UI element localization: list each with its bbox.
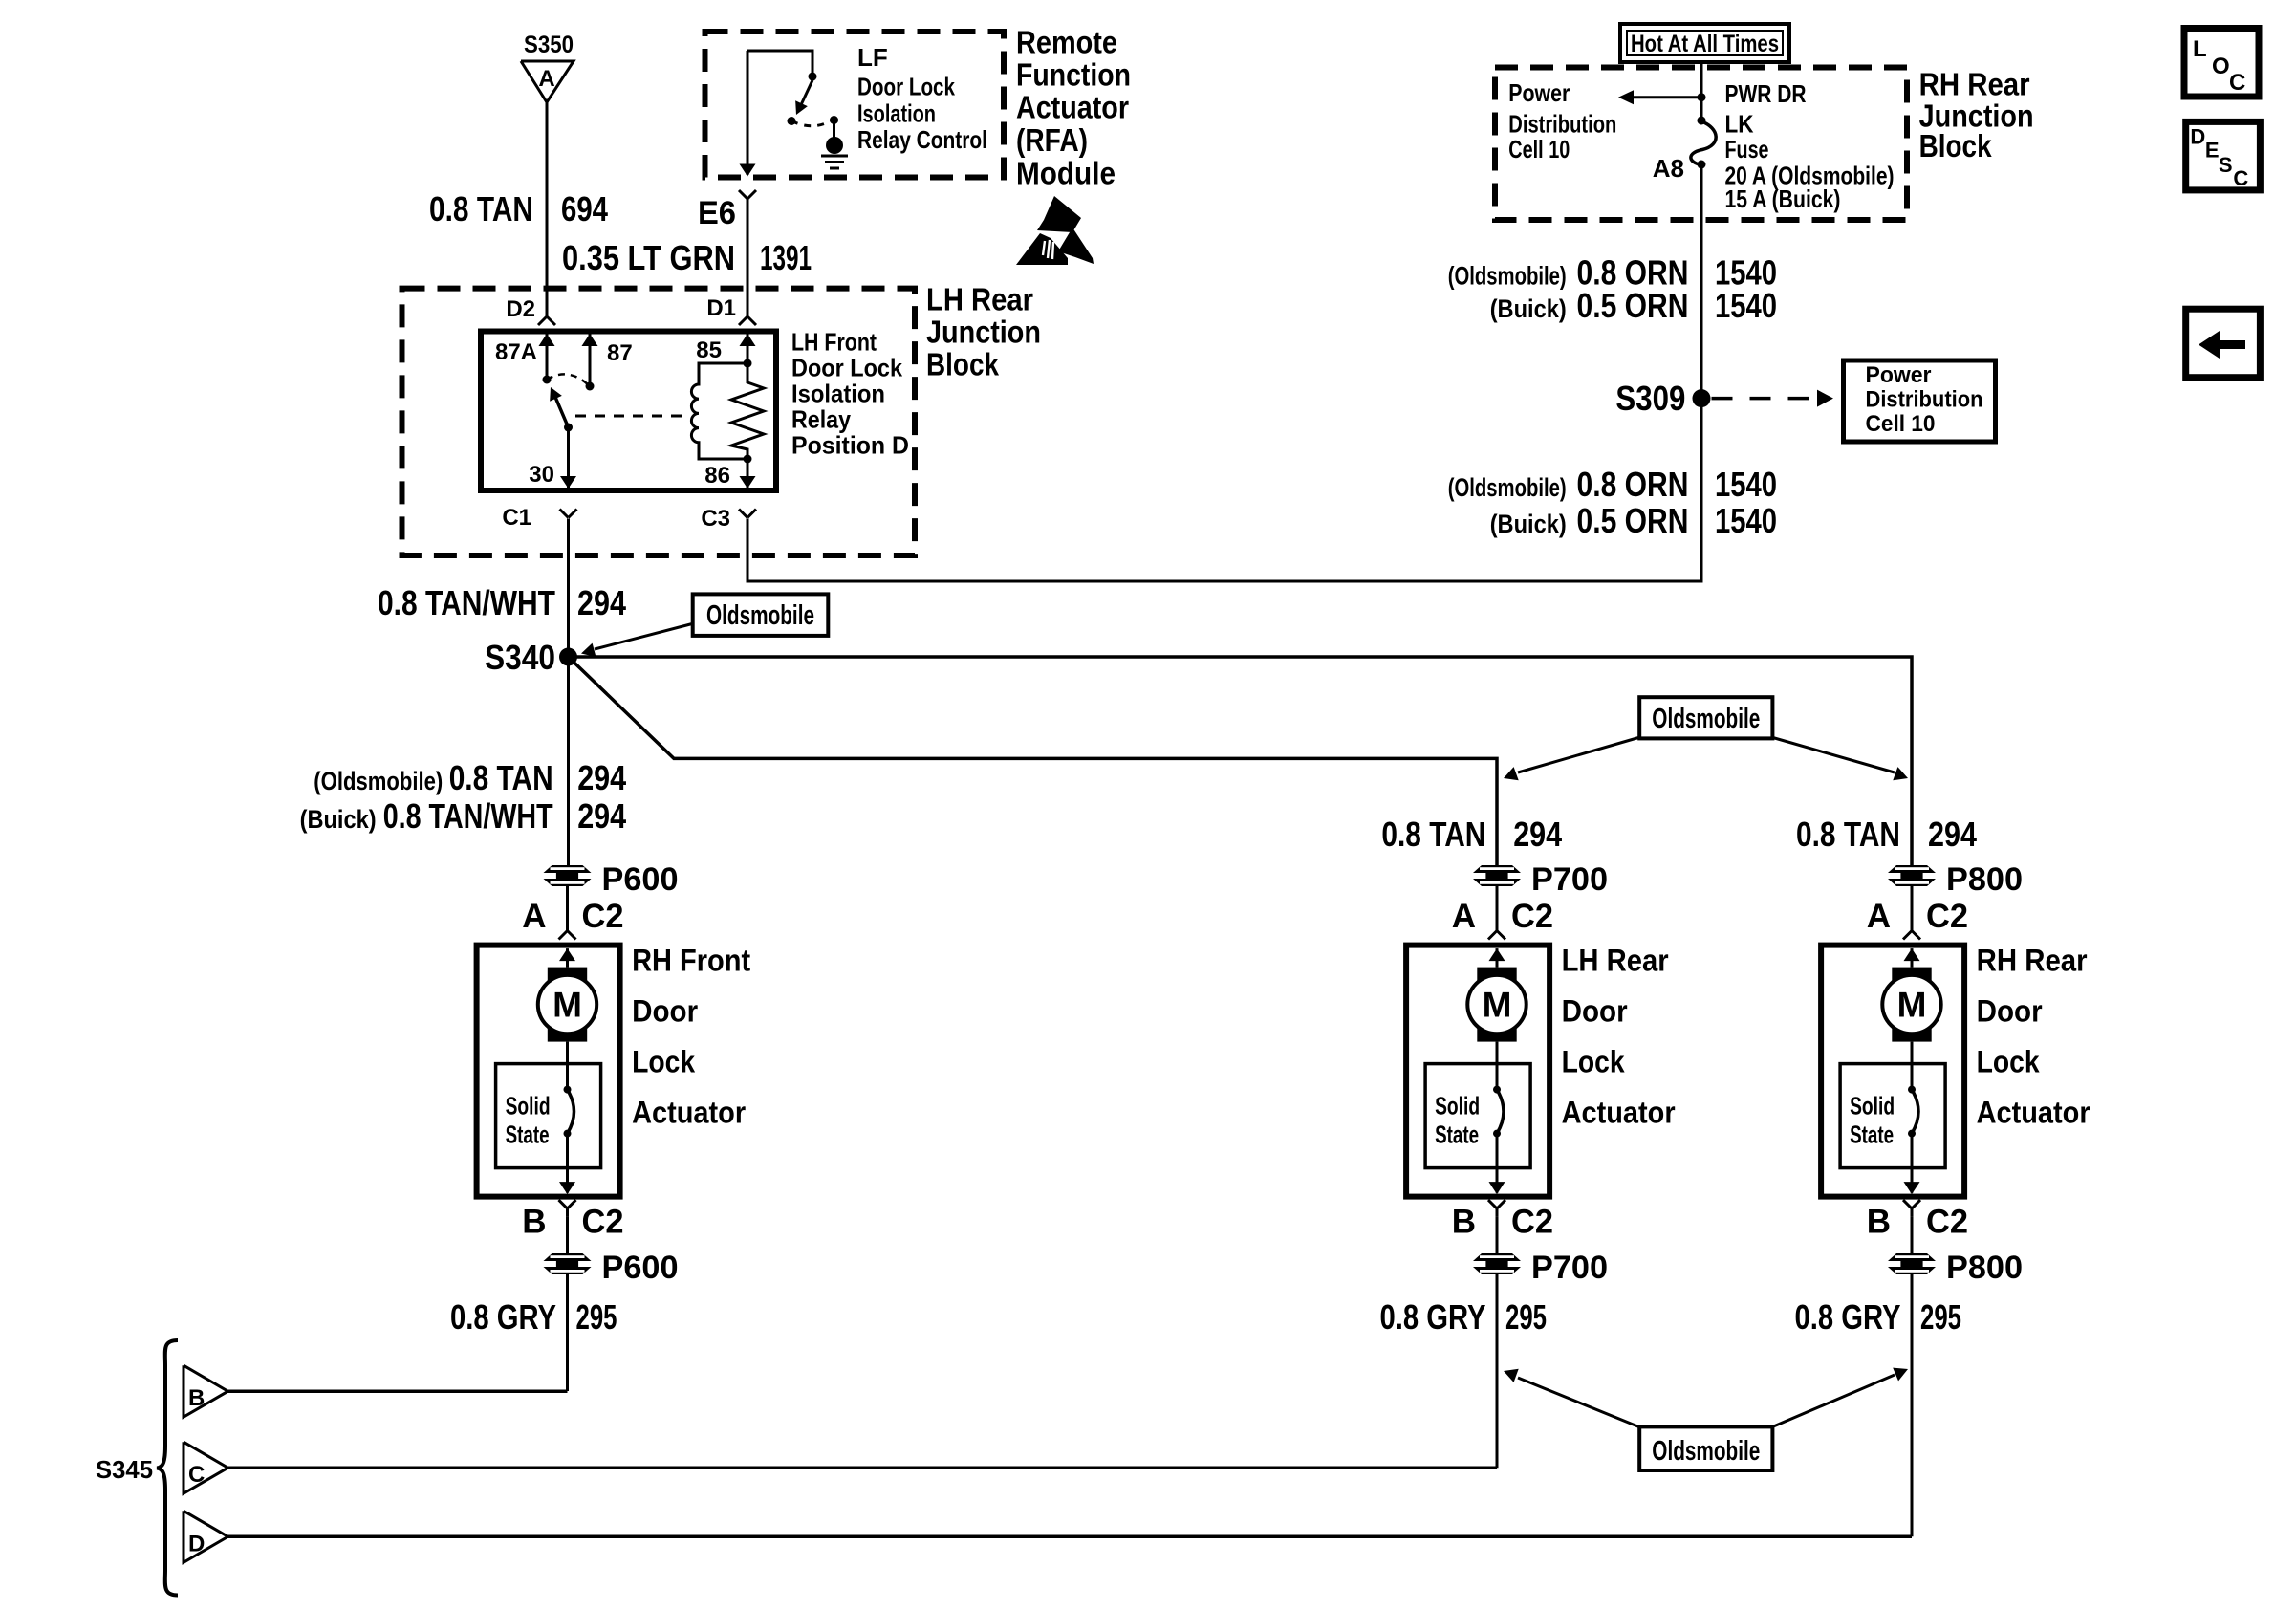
svg-text:294: 294 bbox=[1513, 815, 1562, 854]
svg-text:1540: 1540 bbox=[1715, 465, 1777, 504]
svg-text:86: 86 bbox=[704, 463, 730, 489]
svg-text:P600: P600 bbox=[602, 861, 679, 898]
svg-text:C2: C2 bbox=[1926, 1204, 1968, 1241]
svg-text:B: B bbox=[1452, 1204, 1476, 1241]
svg-text:LH Front: LH Front bbox=[791, 327, 877, 356]
svg-text:Isolation: Isolation bbox=[857, 99, 936, 128]
svg-text:Fuse: Fuse bbox=[1725, 135, 1769, 163]
svg-text:Relay Control: Relay Control bbox=[857, 125, 987, 154]
svg-text:M: M bbox=[1483, 986, 1512, 1025]
svg-text:294: 294 bbox=[577, 583, 626, 622]
svg-text:Actuator: Actuator bbox=[632, 1095, 746, 1129]
svg-text:LH Rear: LH Rear bbox=[1562, 944, 1669, 978]
svg-text:0.8 GRY: 0.8 GRY bbox=[1795, 1297, 1901, 1337]
svg-text:(RFA): (RFA) bbox=[1016, 122, 1088, 158]
svg-text:0.8 GRY: 0.8 GRY bbox=[450, 1297, 556, 1337]
svg-text:RH Rear: RH Rear bbox=[1977, 944, 2088, 978]
svg-text:0.5 ORN: 0.5 ORN bbox=[1577, 501, 1689, 540]
svg-text:Oldsmobile: Oldsmobile bbox=[1652, 704, 1760, 734]
svg-text:D1: D1 bbox=[706, 295, 736, 321]
svg-text:Cell 10: Cell 10 bbox=[1866, 411, 1936, 437]
svg-text:A: A bbox=[1452, 898, 1476, 935]
svg-text:Door: Door bbox=[632, 994, 698, 1029]
svg-text:294: 294 bbox=[577, 758, 626, 797]
svg-text:RH Rear: RH Rear bbox=[1919, 67, 2030, 102]
svg-text:PWR DR: PWR DR bbox=[1725, 79, 1807, 108]
svg-text:294: 294 bbox=[577, 796, 626, 836]
svg-text:Lock: Lock bbox=[632, 1045, 695, 1079]
svg-text:0.8 GRY: 0.8 GRY bbox=[1380, 1297, 1486, 1337]
svg-text:Door Lock: Door Lock bbox=[791, 353, 902, 381]
svg-text:Oldsmobile: Oldsmobile bbox=[1652, 1436, 1760, 1467]
svg-text:C: C bbox=[188, 1462, 205, 1488]
svg-text:Block: Block bbox=[1919, 128, 1993, 163]
svg-text:295: 295 bbox=[576, 1297, 617, 1337]
svg-text:C2: C2 bbox=[582, 898, 624, 935]
svg-text:C2: C2 bbox=[582, 1204, 624, 1241]
svg-text:L: L bbox=[2193, 36, 2207, 62]
svg-text:15 A (Buick): 15 A (Buick) bbox=[1725, 185, 1841, 213]
svg-text:C2: C2 bbox=[1511, 1204, 1553, 1241]
svg-text:Isolation: Isolation bbox=[791, 379, 885, 407]
svg-text:(Oldsmobile): (Oldsmobile) bbox=[1448, 262, 1567, 291]
svg-text:M: M bbox=[1897, 986, 1927, 1025]
svg-text:1391: 1391 bbox=[760, 238, 812, 277]
svg-text:Actuator: Actuator bbox=[1016, 90, 1129, 125]
svg-text:Remote: Remote bbox=[1016, 24, 1117, 59]
svg-text:694: 694 bbox=[561, 189, 608, 228]
svg-text:Actuator: Actuator bbox=[1977, 1095, 2090, 1129]
svg-text:0.8 TAN: 0.8 TAN bbox=[449, 758, 553, 797]
svg-text:(Buick): (Buick) bbox=[1490, 294, 1567, 323]
svg-text:Oldsmobile: Oldsmobile bbox=[706, 600, 814, 631]
svg-text:P600: P600 bbox=[602, 1250, 679, 1286]
svg-text:87: 87 bbox=[607, 340, 633, 366]
svg-text:State: State bbox=[506, 1120, 550, 1149]
svg-text:Lock: Lock bbox=[1977, 1045, 2040, 1079]
svg-text:Door: Door bbox=[1977, 994, 2043, 1029]
svg-text:B: B bbox=[188, 1385, 205, 1411]
svg-text:Hot At All Times: Hot At All Times bbox=[1631, 31, 1779, 57]
svg-text:D: D bbox=[2190, 125, 2205, 149]
svg-text:Power: Power bbox=[1866, 362, 1932, 388]
svg-text:Actuator: Actuator bbox=[1562, 1095, 1676, 1129]
svg-text:Cell 10: Cell 10 bbox=[1508, 135, 1570, 163]
svg-text:S340: S340 bbox=[485, 638, 555, 677]
svg-text:Solid: Solid bbox=[506, 1092, 551, 1120]
svg-text:295: 295 bbox=[1920, 1297, 1961, 1337]
svg-text:S: S bbox=[2219, 153, 2233, 177]
svg-text:RH Front: RH Front bbox=[632, 944, 750, 978]
svg-text:30: 30 bbox=[529, 462, 554, 488]
svg-text:P800: P800 bbox=[1946, 1250, 2023, 1286]
svg-text:Door Lock: Door Lock bbox=[857, 73, 955, 101]
svg-text:Door: Door bbox=[1562, 994, 1628, 1029]
svg-text:S350: S350 bbox=[524, 32, 574, 58]
svg-text:C2: C2 bbox=[1511, 898, 1553, 935]
svg-text:M: M bbox=[552, 986, 582, 1025]
svg-text:D2: D2 bbox=[506, 296, 535, 322]
svg-text:1540: 1540 bbox=[1715, 501, 1777, 540]
svg-text:0.8 TAN/WHT: 0.8 TAN/WHT bbox=[383, 796, 553, 836]
svg-text:P700: P700 bbox=[1531, 1250, 1608, 1286]
svg-text:C3: C3 bbox=[701, 506, 730, 532]
svg-text:A: A bbox=[522, 898, 546, 935]
svg-text:0.35 LT GRN: 0.35 LT GRN bbox=[562, 238, 735, 277]
svg-text:295: 295 bbox=[1505, 1297, 1547, 1337]
svg-text:Block: Block bbox=[926, 347, 1000, 382]
svg-text:294: 294 bbox=[1928, 815, 1977, 854]
svg-text:(Buick): (Buick) bbox=[300, 805, 377, 834]
svg-text:Power: Power bbox=[1508, 78, 1570, 107]
svg-text:B: B bbox=[522, 1204, 546, 1241]
svg-text:LF: LF bbox=[857, 43, 888, 72]
svg-text:A: A bbox=[1867, 898, 1891, 935]
svg-text:State: State bbox=[1435, 1120, 1479, 1149]
svg-text:E: E bbox=[2205, 139, 2220, 163]
svg-text:C2: C2 bbox=[1926, 898, 1968, 935]
svg-text:Relay: Relay bbox=[791, 404, 851, 433]
svg-text:A8: A8 bbox=[1653, 154, 1684, 183]
svg-text:Position D: Position D bbox=[791, 430, 909, 459]
svg-text:Lock: Lock bbox=[1562, 1045, 1625, 1079]
svg-text:A: A bbox=[538, 66, 554, 92]
svg-text:S345: S345 bbox=[96, 1455, 153, 1484]
svg-text:(Oldsmobile): (Oldsmobile) bbox=[1448, 473, 1567, 502]
svg-text:87A: 87A bbox=[495, 339, 537, 365]
svg-text:S309: S309 bbox=[1615, 379, 1685, 418]
svg-text:Solid: Solid bbox=[1435, 1092, 1480, 1120]
svg-text:O: O bbox=[2212, 54, 2230, 79]
svg-text:Solid: Solid bbox=[1850, 1092, 1895, 1120]
svg-text:Distribution: Distribution bbox=[1866, 387, 1983, 413]
svg-text:B: B bbox=[1867, 1204, 1891, 1241]
svg-text:Function: Function bbox=[1016, 57, 1131, 93]
svg-text:0.8 TAN: 0.8 TAN bbox=[1796, 815, 1900, 854]
svg-text:Junction: Junction bbox=[926, 315, 1041, 350]
svg-text:P700: P700 bbox=[1531, 861, 1608, 898]
svg-text:C: C bbox=[2233, 166, 2248, 190]
svg-text:(Oldsmobile): (Oldsmobile) bbox=[314, 767, 443, 795]
svg-text:LH Rear: LH Rear bbox=[926, 282, 1033, 317]
svg-text:D: D bbox=[188, 1531, 205, 1556]
svg-text:85: 85 bbox=[696, 337, 722, 363]
svg-text:C1: C1 bbox=[502, 505, 531, 531]
svg-text:(Buick): (Buick) bbox=[1490, 510, 1567, 538]
svg-text:0.8 TAN/WHT: 0.8 TAN/WHT bbox=[378, 583, 555, 622]
svg-text:0.8 ORN: 0.8 ORN bbox=[1577, 465, 1689, 504]
svg-text:E6: E6 bbox=[698, 195, 736, 231]
svg-text:P800: P800 bbox=[1946, 861, 2023, 898]
svg-text:0.8 TAN: 0.8 TAN bbox=[429, 189, 533, 228]
svg-text:1540: 1540 bbox=[1715, 286, 1777, 325]
svg-text:State: State bbox=[1850, 1120, 1894, 1149]
svg-text:Module: Module bbox=[1016, 156, 1116, 191]
svg-text:C: C bbox=[2229, 70, 2245, 96]
svg-text:0.5 ORN: 0.5 ORN bbox=[1577, 286, 1689, 325]
svg-text:0.8 TAN: 0.8 TAN bbox=[1381, 815, 1485, 854]
